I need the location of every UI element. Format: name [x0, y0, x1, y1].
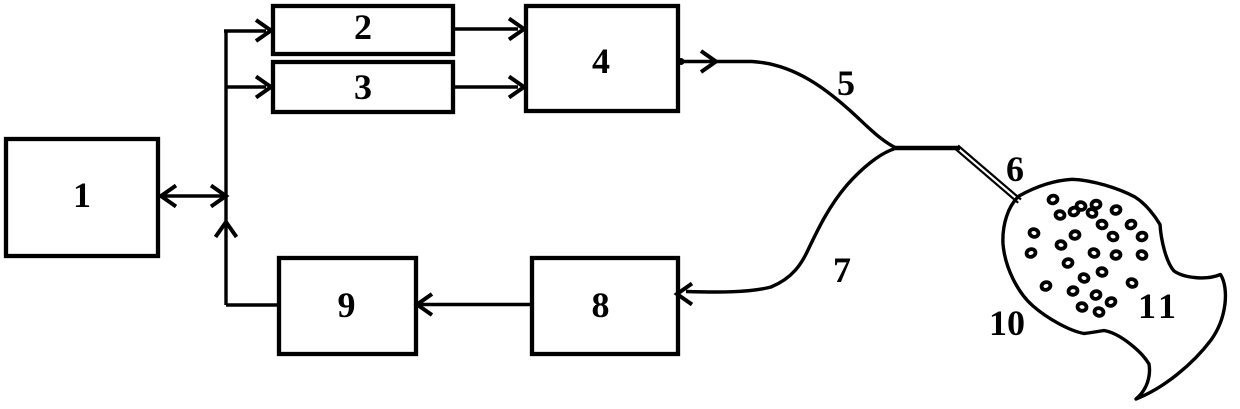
wire 5 curve from box 4 to fiber junction — [680, 62, 896, 149]
arrowhead up on trunk — [216, 222, 237, 237]
svg-text:8: 8 — [592, 285, 610, 325]
svg-text:2: 2 — [354, 7, 372, 47]
wire trunk to box 9 — [226, 303, 279, 306]
wire trunk to box 2 — [224, 29, 266, 32]
wire trunk to box 3 — [226, 85, 266, 88]
arrowhead into box 8 — [677, 284, 692, 305]
svg-text:7: 7 — [833, 250, 851, 290]
tissue blob 10 outline — [1003, 179, 1226, 399]
svg-text:10: 10 — [989, 303, 1025, 343]
box 2 — [273, 6, 453, 54]
box 3 — [273, 62, 453, 112]
arrowhead into box 9 — [417, 294, 432, 315]
cell dots 11 — [1025, 195, 1147, 317]
svg-text:11: 11 — [1138, 286, 1180, 326]
wire box 3 to box 4 — [455, 85, 518, 88]
node output of box 4 — [678, 58, 685, 65]
arrowhead at trunk junction — [211, 186, 226, 207]
svg-text:4: 4 — [592, 41, 610, 81]
fiber 6 lower diagonal — [955, 149, 1018, 203]
wire trunk vertical — [224, 31, 227, 305]
box 4 — [526, 6, 678, 111]
wire box 8 to box 9 — [420, 303, 532, 306]
svg-text:3: 3 — [354, 67, 372, 107]
arrowhead into box 1 — [161, 186, 176, 207]
arrowhead on wire 5 — [701, 51, 716, 72]
wire box 1 to trunk bidirectional — [162, 194, 224, 197]
wire 7 curve from fiber junction to box 8 — [686, 149, 894, 292]
svg-text:5: 5 — [837, 63, 855, 103]
arrowhead into box 4 lower — [509, 77, 524, 98]
fiber 6 upper diagonal — [958, 146, 1021, 200]
svg-text:9: 9 — [338, 285, 356, 325]
svg-text:6: 6 — [1006, 149, 1024, 189]
fiber 6 thick segment — [894, 146, 960, 150]
svg-text:1: 1 — [73, 175, 91, 215]
box 9 — [279, 258, 416, 354]
wire box 2 to box 4 — [455, 27, 518, 30]
arrowhead into box 2 — [256, 20, 271, 41]
box 8 — [532, 258, 678, 354]
box 1 — [6, 139, 158, 256]
arrowhead into box 4 upper — [509, 19, 524, 40]
arrowhead into box 3 — [256, 77, 271, 98]
